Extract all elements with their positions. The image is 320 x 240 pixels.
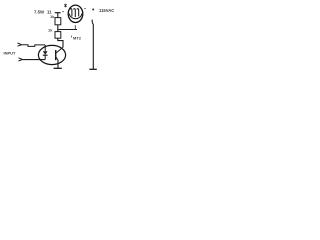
input terminal top [18,43,22,46]
svg-text:115VAC: 115VAC [99,8,114,13]
optocoupler U1 circle [38,45,65,64]
resistor R2 [55,32,61,39]
terminal tick emitter [54,67,62,69]
wire top input [22,45,46,47]
svg-text:7.5W: 7.5W [34,10,45,15]
wire bottom input [23,59,46,61]
terminal tick top of R1 [55,12,61,14]
Q1 collector [56,47,63,53]
terminal tick AC line [89,68,96,70]
lamp DS1 circle [68,5,83,22]
LED D1 cathode bar [43,54,48,56]
asterisk left of lamp DS1 [64,4,67,8]
LED D1 triangle [43,51,48,55]
resistor R1 [55,18,61,25]
svg-text:MT2: MT2 [73,35,82,40]
svg-text:INPUT: INPUT [4,51,17,56]
svg-text:": " [62,10,64,15]
input terminal bottom [19,58,23,61]
wire jog from R2 to opto collector [58,38,63,47]
node label MT2 tick [70,36,72,38]
lamp DS1 filament loop 3 [77,9,79,17]
AC line wire [92,20,93,69]
lamp DS1 filament loop 1 [70,9,72,17]
LED D1 cathode lead [44,55,46,59]
lamp bottom lead wire [74,25,76,29]
wire from lamp to R1/R2 junction node [58,29,77,31]
junction dot at LED anode [44,46,46,48]
wire R1 to R2 [57,25,59,32]
svg-text:1k: 1k [48,28,53,33]
lamp DS1 filament bottom arc [69,14,82,19]
Q1 emitter [56,57,59,61]
wire terminal to R1 [57,13,59,18]
lamp DS1 filament loop 2 [74,9,76,17]
wire emitter down [57,60,59,68]
LED D1 anode lead [44,45,46,51]
phototransistor Q1 base bar [55,50,57,60]
svg-text:": " [84,7,86,12]
svg-text:1k: 1k [50,14,55,19]
AC line top dot [92,9,94,11]
